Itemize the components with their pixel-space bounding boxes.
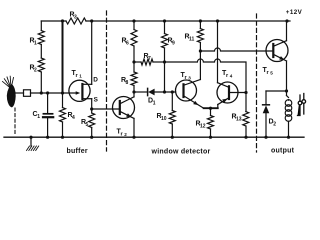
svg-text:output: output [271, 147, 295, 154]
wire shield dashed to ground rail [14, 108, 16, 135]
diode D2 [266, 90, 287, 92]
node gate junction C1 [46, 91, 49, 94]
svg-text:1: 1 [37, 114, 40, 120]
wire Tr2 emitter to ground rail [133, 118, 135, 137]
ground symbol [29, 136, 32, 139]
resistor R13 [245, 93, 247, 112]
svg-text:1: 1 [34, 40, 37, 46]
svg-text:+12V: +12V [286, 9, 303, 16]
svg-text:5: 5 [270, 70, 273, 75]
resistor R2 [38, 58, 44, 72]
resistor R6 [132, 19, 135, 22]
wire R9 line down to D1 line [164, 62, 166, 92]
svg-text:7: 7 [148, 56, 151, 62]
wire transducer to box [15, 92, 24, 94]
diode D1 [134, 91, 148, 93]
resistor R11 [199, 19, 202, 22]
wire Tr1 drain to rail [91, 21, 93, 84]
svg-text:2: 2 [273, 121, 276, 127]
node gate junction R2 [40, 91, 43, 94]
svg-text:r: r [226, 73, 229, 79]
node rail junction left of R3 [61, 19, 64, 22]
wire line2 to Tr4 base (hops over two wires) [165, 59, 247, 92]
transistor Tr3 [176, 80, 204, 109]
wire source node to Tr2 base [92, 108, 120, 110]
wire input line to gate [31, 92, 76, 94]
node R11 / line1 / Tr3 collector junction [199, 49, 202, 52]
wire rail to gate line (thick) [62, 21, 64, 93]
relay coil RLA [286, 91, 288, 96]
transistor Tr1 (FET) [69, 80, 92, 101]
svg-text:4: 4 [230, 73, 233, 78]
svg-text:2: 2 [124, 132, 127, 137]
svg-text:1: 1 [153, 100, 156, 106]
wire R2 to gate line [40, 72, 42, 93]
wire line1 to Tr5 base (hop over Tr4 collector wire) [200, 48, 273, 51]
svg-text:window detector: window detector [151, 149, 211, 156]
svg-text:3: 3 [188, 75, 191, 80]
svg-text:10: 10 [161, 116, 167, 122]
node R12 junction [209, 107, 212, 110]
svg-text:12: 12 [200, 123, 206, 129]
svg-text:5: 5 [86, 122, 89, 128]
relay contacts [298, 94, 306, 116]
svg-text:4: 4 [72, 115, 75, 121]
wire Tr2 collector up [133, 92, 135, 97]
svg-text:6: 6 [126, 40, 129, 46]
resistor R7 [134, 61, 141, 63]
wire Tr5 emitter down [286, 61, 288, 91]
svg-text:buffer: buffer [67, 148, 88, 155]
svg-text:1: 1 [79, 73, 82, 78]
svg-text:S: S [94, 96, 99, 103]
transistor Tr2 [113, 97, 135, 119]
wire common emitter bar [204, 107, 218, 109]
resistor R1 [40, 21, 42, 31]
node ground rail junctions [46, 136, 49, 139]
node R6/R7/R8 junction [132, 60, 135, 63]
section divider dashed (buffer / window detector) [106, 11, 108, 151]
svg-text:r: r [121, 131, 124, 137]
wire top supply rail [41, 20, 66, 22]
wire Tr4 collector to rail [216, 19, 219, 22]
svg-text:8: 8 [126, 80, 129, 86]
transistor Tr4 [217, 82, 246, 108]
wire R1 to R2 [40, 45, 42, 59]
svg-text:r: r [267, 70, 270, 76]
svg-text:11: 11 [189, 36, 195, 42]
svg-text:r: r [76, 73, 79, 79]
wire Tr1 source to node [91, 99, 93, 109]
capacitor C1 [47, 93, 49, 113]
svg-text:13: 13 [236, 116, 242, 122]
resistor R5 [91, 109, 93, 113]
wire R11 node down to Tr3 collector [199, 51, 201, 80]
node R7/R9 junction [163, 60, 166, 63]
box (input connector) [24, 90, 31, 97]
svg-text:3: 3 [74, 14, 77, 20]
resistor R3 [66, 18, 86, 24]
node R10 junction [171, 90, 174, 93]
resistor R10 [171, 92, 173, 111]
node source junction [90, 107, 93, 110]
node Tr4 base junction [244, 91, 247, 94]
wire bottom ground rail [4, 136, 304, 138]
node emitter junction [285, 89, 288, 92]
transistor Tr5 [266, 40, 288, 62]
resistor R4 [62, 93, 64, 108]
node D1 line junction [132, 90, 135, 93]
svg-text:9: 9 [172, 40, 175, 46]
svg-text:D: D [93, 76, 98, 83]
resistor R12 [210, 108, 212, 115]
node gate junction R4 [61, 91, 64, 94]
wire Tr5 collector to +12V rail [286, 21, 288, 41]
transducer X1 (input pickup) [3, 76, 16, 107]
section divider dashed (window detector / output) [256, 14, 258, 152]
svg-text:2: 2 [34, 67, 37, 73]
resistor R9 [163, 19, 166, 22]
resistor R8 [133, 62, 135, 72]
